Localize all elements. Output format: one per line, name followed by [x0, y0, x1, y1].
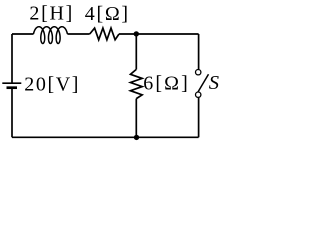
resistor 4[ohm] zigzag [90, 28, 119, 40]
label 20[V] [24, 73, 80, 95]
svg-text:2[H]: 2[H] [29, 3, 74, 25]
switch S bottom terminal circle [196, 92, 201, 97]
wire: top-left segment [12, 33, 34, 35]
wire: bottom horizontal [12, 136, 199, 138]
wire: between inductor and resistor [67, 33, 89, 35]
switch S top terminal circle [196, 70, 201, 75]
label 4[ohm] [85, 3, 130, 25]
svg-text:20[V]: 20[V] [24, 73, 80, 95]
svg-text:S: S [209, 72, 219, 94]
wire: left vertical lower (battery to bottom) [11, 88, 13, 138]
label 2[H] [29, 3, 74, 25]
label 6[ohm] [143, 72, 190, 94]
wire: middle branch upper (node to 6ohm) [135, 34, 137, 69]
wire: left vertical upper (to battery) [11, 34, 13, 83]
wire: resistor to top-right corner [119, 33, 199, 35]
battery 20[V] long plate (+) [2, 82, 21, 84]
wire: right vertical lower (switch to bottom) [198, 98, 200, 138]
inductor 2[H] coil [33, 27, 67, 44]
wire: right vertical upper (to switch) [198, 34, 200, 69]
label S [209, 72, 219, 94]
node: top junction dot [134, 31, 139, 36]
battery 20[V] short plate (-) [7, 86, 18, 89]
wire: middle branch lower (6ohm to bottom node) [135, 99, 137, 138]
svg-text:4[Ω]: 4[Ω] [85, 3, 130, 25]
resistor 6[ohm] zigzag [130, 69, 142, 98]
node: bottom junction dot [134, 135, 139, 140]
svg-text:6[Ω]: 6[Ω] [143, 72, 190, 94]
switch S blade [198, 74, 209, 92]
